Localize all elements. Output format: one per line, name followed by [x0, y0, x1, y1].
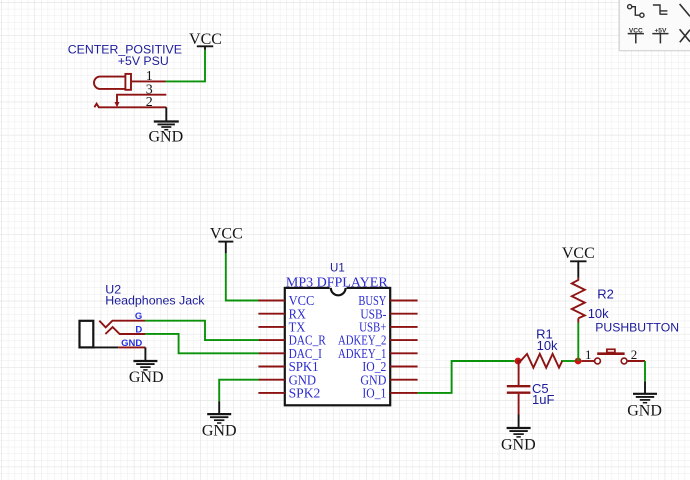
U2 ring contact and pin D: [105, 327, 145, 334]
U1 right pins: [390, 301, 417, 393]
svg-text:2: 2: [146, 95, 153, 110]
U2 tip contact and pin G: [99, 321, 145, 328]
svg-text:U1: U1: [330, 263, 345, 275]
pin 3 of J1 with switch arrow: [117, 95, 166, 103]
wire R2 to junction: [577, 318, 579, 322]
pushbutton SW1 pin 2: [621, 358, 627, 364]
svg-text:VCC: VCC: [210, 226, 243, 243]
pin 2 of J1 with spring contact: [94, 104, 166, 108]
wire G to DAC_R: [145, 321, 259, 340]
capacitor C5: [518, 361, 520, 385]
svg-text:GND: GND: [501, 436, 536, 453]
wire VCC to U1 VCC pin: [226, 253, 259, 300]
wire D to DAC_I: [145, 334, 259, 353]
svg-text:+5V PSU: +5V PSU: [118, 54, 169, 68]
node junction at R1 left / C5 top: [515, 358, 522, 365]
wire U1 IO_1 to R1/C5 junction: [418, 361, 515, 393]
IC U1 MP3 DFPLAYER body: [285, 288, 390, 405]
svg-text:GND: GND: [627, 402, 662, 419]
node junction at R1 right / R2 bottom: [575, 358, 582, 365]
svg-text:SPK2: SPK2: [289, 386, 321, 401]
ground GND1: [154, 122, 179, 130]
toolbar icon: clipped X: [680, 29, 690, 42]
resistor R1: [518, 354, 563, 368]
pin 1 of J1: [131, 80, 166, 82]
svg-text:Headphones Jack: Headphones Jack: [105, 294, 205, 308]
svg-text:+5V: +5V: [654, 27, 667, 34]
svg-text:1uF: 1uF: [532, 392, 554, 407]
svg-text:VCC: VCC: [562, 245, 595, 262]
svg-text:1: 1: [585, 347, 592, 362]
svg-text:G: G: [135, 311, 142, 322]
svg-text:VCC: VCC: [189, 31, 222, 48]
wire U1 GND pin to ground: [219, 380, 259, 402]
svg-text:GND: GND: [202, 422, 237, 439]
toolbar icon: draw wire: [628, 5, 644, 18]
resistor R2: [572, 278, 585, 319]
svg-text:GND: GND: [129, 369, 164, 386]
wire SW1 pin2 to ground: [628, 360, 645, 362]
wire junction to SW1 pin 1: [582, 360, 595, 362]
U1 left pins: [258, 301, 284, 393]
toolbar icon: +5V power: [652, 34, 668, 44]
U2 pin GND: [93, 346, 118, 348]
wire J1 pin1 to VCC: [166, 50, 206, 82]
svg-text:GND: GND: [148, 128, 183, 145]
toolbar icon: VCC power: [628, 34, 644, 44]
svg-text:MP3 DFPLAYER: MP3 DFPLAYER: [286, 275, 388, 290]
ground GND3: [207, 414, 231, 423]
ground GND2: [133, 361, 157, 370]
wire C5 to ground: [518, 415, 520, 429]
wire J1 pin2 to ground: [165, 107, 167, 122]
connector U2 jack body: [80, 321, 94, 348]
U1 right pin names: [338, 293, 387, 400]
pushbutton SW1 actuator bar: [597, 352, 624, 355]
svg-text:10k: 10k: [588, 306, 609, 321]
power symbol VCC (top left): [197, 46, 213, 50]
ground GND4: [507, 428, 531, 437]
wire stub right of R1: [561, 360, 575, 362]
connector J1 CENTER_POSITIVE +5V PSU label: [68, 43, 182, 68]
svg-text:R2: R2: [597, 287, 614, 302]
toolbar panel (top right): [618, 0, 690, 52]
toolbar icon: bus entry: [653, 5, 668, 15]
svg-text:D: D: [135, 324, 142, 335]
svg-text:VCC: VCC: [629, 27, 643, 34]
connector J1 barrel jack body: [94, 74, 131, 90]
svg-text:2: 2: [631, 347, 638, 362]
svg-text:IO_1: IO_1: [362, 386, 386, 401]
svg-text:10k: 10k: [537, 338, 558, 353]
U1 left pin names: [289, 293, 326, 400]
toolbar icon: diagonal tool (clipped): [680, 4, 690, 16]
svg-text:GND: GND: [121, 338, 142, 349]
wire U2 GND to ground: [144, 347, 146, 361]
ground GND5: [633, 394, 657, 403]
svg-text:PUSHBUTTON: PUSHBUTTON: [595, 320, 679, 334]
